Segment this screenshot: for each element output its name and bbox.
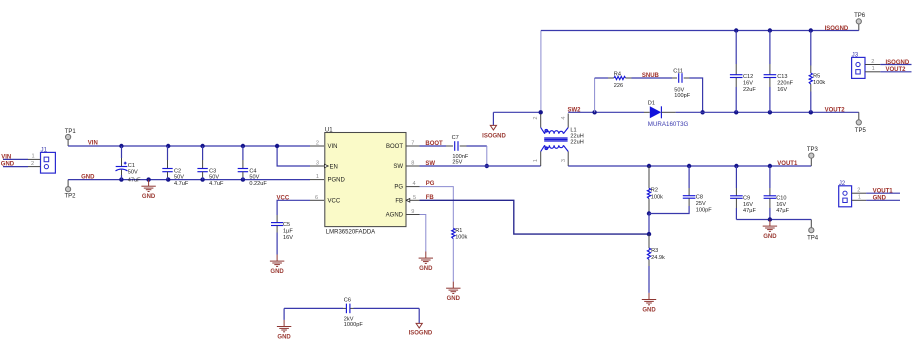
svg-text:R4: R4 [614, 71, 621, 77]
resistor R1 [452, 228, 468, 241]
test point TP1 [65, 129, 77, 139]
wire R4 to C11 [632, 77, 673, 79]
svg-text:LMR36520FADDA: LMR36520FADDA [326, 229, 375, 235]
capacitor C10 [764, 166, 790, 220]
svg-text:1: 1 [533, 159, 539, 162]
wire J3 pin2 ISOGND [880, 64, 911, 66]
wire GND rail [68, 179, 310, 181]
svg-text:C2: C2 [174, 168, 181, 174]
svg-text:C10: C10 [776, 195, 786, 201]
capacitor C13 [764, 31, 794, 113]
test point TP2 [64, 187, 76, 200]
pin 4 PG [394, 181, 419, 191]
svg-text:2: 2 [31, 161, 34, 167]
test point TP4 [807, 228, 819, 242]
svg-text:3: 3 [561, 159, 567, 162]
wire AGND to ground [420, 215, 426, 252]
svg-text:16V: 16V [743, 202, 753, 208]
svg-text:50V: 50V [249, 175, 259, 181]
wire J1 pin2 GND [3, 166, 28, 168]
svg-text:22uH: 22uH [570, 139, 583, 145]
ground ISOGND (C6) [409, 323, 433, 336]
svg-text:0.22uF: 0.22uF [249, 181, 267, 187]
svg-text:PG: PG [394, 185, 403, 191]
connector J1 [28, 146, 55, 173]
svg-text:C1: C1 [128, 163, 135, 169]
ground GND (C5) [270, 255, 285, 276]
svg-text:D1: D1 [648, 101, 655, 107]
svg-text:1µF: 1µF [283, 228, 293, 234]
wire SW2-left segment [493, 111, 540, 113]
svg-text:25V: 25V [452, 160, 462, 166]
pin 9 AGND [386, 209, 420, 219]
svg-text:ISOGND: ISOGND [482, 133, 506, 139]
svg-text:100k: 100k [813, 80, 825, 86]
test point TP3 [807, 147, 819, 158]
svg-text:TP6: TP6 [854, 13, 866, 19]
wire VOUT1 rail [568, 165, 811, 167]
svg-text:VIN: VIN [1, 154, 11, 160]
wire EN branch [277, 146, 310, 166]
svg-text:GND: GND [142, 194, 156, 200]
svg-text:TP5: TP5 [855, 128, 867, 134]
wire SW2 secondary top [568, 111, 644, 113]
svg-text:2: 2 [316, 141, 319, 147]
svg-text:25V: 25V [696, 201, 706, 207]
wire VIN rail [68, 145, 310, 147]
node R2/C8 junction [647, 211, 651, 215]
resistor R4 [608, 71, 632, 89]
svg-text:AGND: AGND [386, 213, 404, 219]
ground GND (input rail) [141, 180, 156, 201]
capacitor C9 [730, 166, 756, 220]
svg-text:VCC: VCC [328, 198, 341, 204]
svg-text:2: 2 [857, 188, 860, 194]
resistor R3 [647, 234, 665, 266]
ground GND (AGND) [419, 252, 434, 273]
node transformer pin2 junction [539, 110, 543, 114]
wire J3 pin1 VOUT2 [880, 71, 911, 73]
wire C11 to cathode line [690, 78, 703, 112]
svg-text:100pF: 100pF [674, 93, 690, 99]
svg-text:PGND: PGND [328, 178, 346, 184]
svg-text:GND: GND [1, 162, 15, 168]
wire BOOT to C7 [420, 145, 447, 147]
resistor R5 [809, 31, 825, 113]
svg-text:J3: J3 [852, 51, 859, 58]
svg-text:5: 5 [413, 195, 416, 201]
svg-text:R5: R5 [813, 74, 820, 80]
test point TP5 [855, 120, 867, 134]
capacitor C7 [446, 135, 469, 165]
svg-text:GND: GND [642, 307, 656, 313]
svg-text:FB: FB [395, 198, 403, 204]
svg-text:VIN: VIN [328, 144, 338, 150]
svg-text:C6: C6 [344, 298, 351, 304]
test point TP6 [854, 13, 866, 24]
wire C7 to SW node [467, 145, 487, 147]
svg-text:ISOGND: ISOGND [886, 60, 910, 66]
svg-text:220nF: 220nF [777, 80, 793, 86]
svg-text:4: 4 [412, 181, 415, 187]
wire J1 pin1 VIN [3, 158, 28, 160]
pin 8 SW [393, 161, 419, 171]
svg-text:C5: C5 [283, 222, 290, 228]
pin 2 VIN [310, 141, 338, 151]
svg-text:1: 1 [31, 154, 34, 160]
svg-text:50V: 50V [174, 175, 184, 181]
svg-text:C7: C7 [452, 135, 459, 141]
svg-text:R3: R3 [651, 248, 658, 254]
node GND rail junctions [119, 177, 123, 181]
svg-text:ISOGND: ISOGND [825, 26, 849, 32]
svg-text:EN: EN [330, 164, 338, 170]
svg-text:C13: C13 [777, 74, 787, 80]
svg-text:16V: 16V [777, 87, 787, 93]
pin 5 FB [395, 195, 419, 205]
svg-text:1: 1 [316, 174, 319, 180]
wire snubber branch [594, 78, 596, 112]
capacitor C11 [672, 68, 691, 99]
wire VCC [277, 200, 310, 215]
node C11 junction [700, 110, 704, 114]
svg-text:TP1: TP1 [65, 129, 77, 135]
wire FB net [420, 200, 650, 234]
svg-text:1: 1 [872, 66, 875, 72]
svg-text:47µF: 47µF [776, 208, 789, 214]
node VIN rail junctions [119, 144, 123, 148]
svg-text:9: 9 [411, 209, 414, 215]
svg-text:TP2: TP2 [64, 194, 76, 200]
resistor R2 [647, 166, 663, 214]
pin 7 BOOT [386, 141, 420, 151]
node C10 ground junction [768, 217, 772, 221]
wire VOUT1 to TP3 [810, 158, 812, 166]
ground GND (R1) [446, 282, 461, 303]
wire C6 right to isognd [418, 308, 420, 323]
svg-text:GND: GND [277, 334, 291, 340]
node top rail junctions [734, 28, 738, 32]
ground GND (C9/C10) [763, 220, 778, 241]
svg-text:226: 226 [614, 83, 623, 89]
ground GND (R3) [642, 293, 657, 314]
svg-text:50V: 50V [128, 170, 138, 176]
wire VOUT2 to TP5 [858, 112, 860, 120]
wire ISOGND top rail [858, 24, 860, 31]
wire J2 pin2 VOUT1 [866, 192, 900, 194]
svg-text:VOUT1: VOUT1 [777, 161, 798, 167]
diode D1 MURA160T3G [644, 101, 689, 128]
connector J2 [839, 180, 866, 207]
svg-text:4.7uF: 4.7uF [174, 181, 189, 187]
svg-text:J2: J2 [839, 180, 846, 187]
svg-text:1000pF: 1000pF [344, 322, 364, 328]
svg-text:50V: 50V [209, 175, 219, 181]
svg-text:TP4: TP4 [807, 235, 819, 241]
svg-text:8: 8 [411, 161, 414, 167]
ground ISOGND (primary stub) [482, 112, 506, 139]
svg-text:ISOGND: ISOGND [409, 331, 433, 337]
svg-text:C11: C11 [673, 68, 683, 74]
node cathode line junctions [734, 110, 738, 114]
svg-text:R1: R1 [455, 228, 462, 234]
svg-text:C8: C8 [696, 195, 703, 201]
svg-text:3: 3 [316, 161, 319, 167]
capacitor C12 [730, 31, 756, 113]
capacitor C4 [238, 146, 268, 187]
capacitor C1 [116, 146, 142, 183]
svg-text:22uF: 22uF [743, 87, 756, 93]
svg-text:100k: 100k [651, 194, 663, 200]
node FB junction [647, 232, 651, 236]
svg-text:1: 1 [858, 195, 861, 201]
wire R3 to ground [648, 266, 650, 293]
svg-text:GND: GND [873, 196, 887, 202]
wire PG to R1 [420, 187, 454, 229]
svg-text:SW: SW [393, 164, 403, 170]
svg-text:U1: U1 [325, 127, 333, 133]
wire C6 left to ground [283, 308, 285, 320]
svg-text:MURA160T3G: MURA160T3G [648, 121, 689, 128]
svg-text:C4: C4 [249, 168, 256, 174]
pin 6 VCC [310, 195, 341, 205]
op-amp/IC U1 LMR36520FADDA [325, 127, 406, 235]
svg-text:GND: GND [447, 296, 461, 302]
wire C9/C10 bottom to TP4 [736, 219, 811, 221]
svg-text:4: 4 [561, 116, 567, 119]
svg-text:BOOT: BOOT [386, 144, 403, 150]
capacitor C2 [162, 146, 189, 187]
svg-text:VOUT2: VOUT2 [825, 108, 846, 114]
pin 1 PGND [310, 174, 346, 184]
svg-text:GND: GND [270, 269, 284, 275]
wire ISOGND top rail vertical [540, 31, 542, 113]
svg-text:47µF: 47µF [743, 208, 756, 214]
svg-text:C12: C12 [743, 74, 753, 80]
wire TP2 stub [67, 180, 69, 187]
svg-text:TP3: TP3 [807, 147, 819, 153]
svg-text:24.9k: 24.9k [651, 255, 665, 261]
capacitor C6 [284, 298, 419, 329]
svg-text:VOUT1: VOUT1 [873, 189, 894, 195]
svg-text:6: 6 [315, 195, 318, 201]
capacitor C8 [649, 166, 712, 214]
node C7/SW junction [485, 164, 489, 168]
pin 3 EN [310, 161, 338, 171]
svg-text:J1: J1 [41, 146, 48, 153]
capacitor C5 [271, 215, 293, 255]
svg-text:4.7uF: 4.7uF [209, 181, 224, 187]
svg-text:100pF: 100pF [696, 207, 712, 213]
wire R2 to FB node [648, 214, 650, 235]
svg-text:100k: 100k [455, 235, 467, 241]
capacitor C3 [197, 146, 224, 187]
svg-text:16V: 16V [743, 80, 753, 86]
svg-text:47uF: 47uF [128, 177, 141, 183]
node VOUT1 junctions [647, 164, 651, 168]
svg-text:2: 2 [871, 59, 874, 65]
connector J3 [852, 51, 881, 78]
svg-text:VOUT2: VOUT2 [886, 67, 907, 73]
wire SW to transformer pin1 [420, 165, 541, 167]
svg-text:16V: 16V [776, 202, 786, 208]
svg-text:C3: C3 [209, 168, 216, 174]
ground GND (C6) [277, 320, 292, 341]
svg-text:R2: R2 [651, 188, 658, 194]
svg-text:GND: GND [763, 234, 777, 240]
wire TP1 stub [67, 140, 69, 146]
transformer L1 [533, 114, 584, 167]
node R4 branch junction [592, 110, 596, 114]
svg-text:7: 7 [411, 141, 414, 147]
svg-text:16V: 16V [283, 235, 293, 241]
svg-text:C9: C9 [743, 195, 750, 201]
wire J2 pin1 GND [866, 199, 900, 201]
svg-text:2: 2 [533, 116, 539, 119]
wire D1 cathode to VOUT2 [676, 111, 859, 113]
svg-text:GND: GND [419, 266, 433, 272]
wire R1 to ground [452, 239, 454, 282]
